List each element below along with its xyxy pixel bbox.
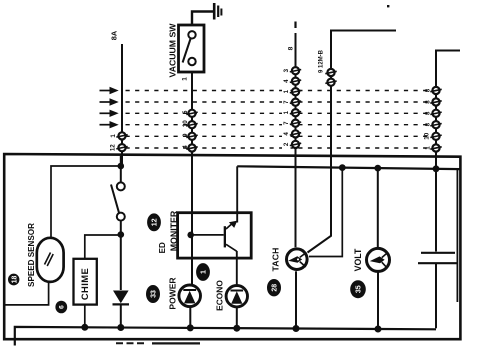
svg-text:POWER: POWER — [167, 277, 177, 309]
collector bus — [237, 166, 460, 169]
wire collector riser — [236, 166, 238, 222]
junction dot — [118, 163, 125, 170]
svg-text:8A: 8A — [110, 30, 119, 40]
svg-text:9 12M-B: 9 12M-B — [319, 49, 325, 73]
svg-text:VOLT: VOLT — [353, 248, 363, 271]
pin labels 8 8 8 8 10 1 — [424, 88, 432, 150]
junction dot — [81, 324, 88, 331]
wire tach to bus — [295, 271, 297, 328]
wire chime to bus — [84, 305, 86, 329]
ground — [192, 3, 221, 25]
arrow row4 — [100, 121, 119, 128]
svg-text:1: 1 — [425, 146, 432, 150]
svg-text:1: 1 — [182, 77, 189, 81]
wire speed sensor branch — [51, 166, 121, 238]
svg-text:4: 4 — [283, 79, 290, 83]
junction dot — [118, 231, 125, 238]
wire tach right L — [309, 168, 342, 257]
junction dot — [339, 164, 346, 171]
transistor Q1 — [191, 221, 238, 252]
wire speed sensor to left rail — [5, 282, 49, 305]
svg-text:MONITER: MONITER — [169, 210, 179, 251]
svg-text:4: 4 — [283, 132, 290, 136]
capacitor C1 — [418, 169, 457, 328]
badge 6 — [55, 301, 67, 314]
arrow row2 — [100, 98, 119, 105]
svg-text:8: 8 — [425, 100, 432, 104]
svg-text:1: 1 — [201, 270, 208, 274]
junction dot — [433, 165, 440, 172]
connector pin 10 on vacuum line — [186, 121, 197, 128]
svg-text:VACUUM SW: VACUUM SW — [167, 23, 177, 78]
svg-text:18: 18 — [11, 276, 18, 284]
parking brake switch — [111, 156, 125, 290]
arrow row1 — [100, 87, 119, 94]
wire B-M21 branch — [308, 31, 397, 253]
connector pin 4 on vacuum line — [186, 144, 197, 151]
svg-text:9: 9 — [182, 133, 189, 137]
vacuum switch box — [179, 25, 205, 72]
junction dot — [375, 326, 382, 333]
connector stack on tach feed — [290, 67, 301, 148]
svg-text:1: 1 — [283, 89, 290, 93]
svg-text:10: 10 — [182, 120, 189, 127]
dashed rows — [126, 91, 434, 149]
svg-text:ED: ED — [158, 242, 167, 253]
svg-text:3: 3 — [283, 68, 290, 72]
smudge bottom — [116, 342, 200, 344]
svg-text:4: 4 — [182, 145, 189, 149]
connector pin 9 on vacuum line — [186, 133, 197, 140]
wire right feed — [436, 51, 460, 169]
volt gauge — [367, 168, 390, 328]
svg-text:8: 8 — [425, 122, 432, 126]
ED monitor box — [178, 213, 252, 258]
connector B-M21 lower — [325, 79, 336, 86]
junction dot — [117, 324, 124, 331]
svg-text:8: 8 — [425, 111, 432, 115]
connector pin 1 on BR line — [116, 132, 127, 139]
vacuum switch contacts and blade — [183, 31, 196, 65]
svg-text:7: 7 — [283, 100, 290, 104]
svg-text:6: 6 — [59, 305, 66, 309]
wire chime branch — [85, 235, 121, 259]
svg-text:12: 12 — [152, 218, 159, 226]
svg-text:2: 2 — [283, 142, 290, 146]
svg-text:33: 33 — [151, 290, 158, 298]
svg-text:1: 1 — [110, 134, 117, 138]
svg-text:1: 1 — [283, 110, 290, 114]
tach gauge — [287, 249, 308, 270]
stray dot — [387, 5, 389, 7]
wire right rail — [456, 169, 458, 302]
connector B-M21 upper — [325, 69, 336, 76]
connector pin 5 on vacuum line — [186, 110, 197, 117]
svg-text:8: 8 — [288, 46, 295, 50]
junction dot — [187, 324, 194, 331]
svg-text:ECONO: ECONO — [214, 280, 224, 311]
junction dot — [374, 165, 381, 172]
wire BR feed — [121, 44, 123, 166]
wire emitter to econo — [236, 251, 238, 285]
junction dot — [293, 325, 300, 332]
svg-text:10: 10 — [424, 132, 431, 139]
badge 1 — [196, 263, 210, 281]
badge 35 — [350, 280, 366, 298]
svg-text:SPEED SENSOR: SPEED SENSOR — [27, 223, 36, 287]
badge 33 — [146, 285, 160, 303]
svg-text:35: 35 — [356, 285, 363, 293]
junction dot base — [187, 232, 194, 239]
svg-text:5: 5 — [182, 110, 189, 114]
speed sensor slashes — [45, 253, 54, 267]
arrow row3 — [100, 110, 119, 117]
badge 12 — [147, 213, 161, 231]
svg-text:CHIME: CHIME — [79, 268, 90, 300]
chime box — [74, 259, 97, 305]
svg-text:12: 12 — [109, 144, 116, 151]
label whiteout — [282, 65, 291, 149]
svg-text:TACH: TACH — [271, 247, 281, 271]
connector stack right — [430, 87, 441, 152]
wire tach feed top — [294, 22, 296, 248]
badge 28 — [267, 279, 281, 296]
speed sensor — [37, 238, 64, 282]
diode D1 — [113, 291, 130, 329]
svg-text:7: 7 — [283, 121, 290, 125]
pin labels 3 4 1 7 1 7 4 2 — [283, 68, 290, 146]
power lamp — [179, 285, 201, 329]
ED monitor label — [158, 210, 179, 253]
ground bus bottom — [15, 327, 436, 346]
wire vacuum switch to cluster — [191, 72, 193, 284]
junction dot — [233, 325, 240, 332]
badge 18 — [8, 274, 19, 286]
econo lamp — [226, 286, 247, 330]
connector pin 12 on BR line — [116, 144, 127, 151]
svg-text:28: 28 — [272, 284, 279, 292]
cluster box — [4, 154, 460, 339]
svg-text:8: 8 — [425, 88, 432, 92]
